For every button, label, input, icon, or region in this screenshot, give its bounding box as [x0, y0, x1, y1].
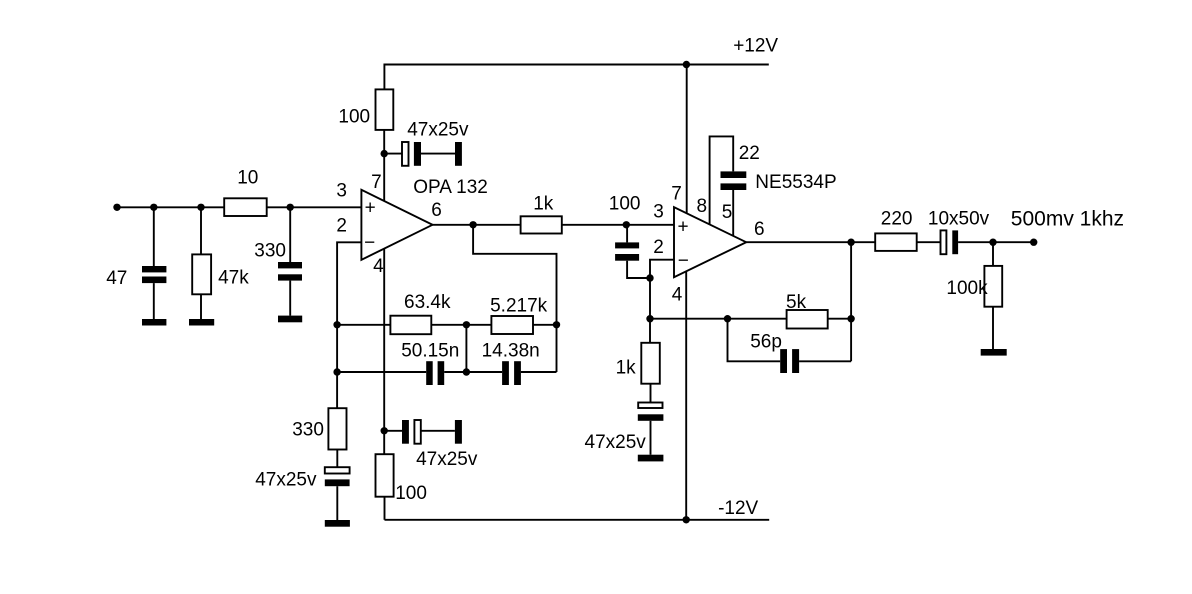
wire 56p loop right [799, 360, 851, 362]
wire +12V rail top [384, 65, 768, 90]
capacitor 100 [615, 242, 639, 260]
node 47 [150, 204, 157, 211]
wire op2 pin2 [650, 260, 674, 343]
wire input row [117, 206, 224, 208]
wire cap to ground bar [421, 153, 455, 155]
svg-text:47x25v: 47x25v [255, 470, 317, 491]
svg-text:7: 7 [671, 184, 682, 205]
svg-text:4: 4 [672, 285, 683, 306]
resistor 63.4k [390, 316, 431, 335]
svg-text:7: 7 [371, 172, 382, 193]
wire 1k to op2 pin3 [561, 224, 674, 226]
svg-text:3: 3 [336, 181, 347, 202]
ground 47 [142, 319, 166, 326]
wire 5k right [828, 318, 851, 320]
wire 1k to cap [650, 384, 652, 403]
svg-text:63.4k: 63.4k [404, 292, 451, 313]
wire node to cap 47x25v top [384, 153, 402, 155]
wire 5.217k right [533, 324, 557, 326]
capacitor 50.15n [426, 361, 444, 385]
svg-text:10x50v: 10x50v [928, 209, 990, 230]
node op2 pin2 [646, 274, 653, 281]
node dots [113, 61, 1037, 524]
resistor 1k op2 branch [641, 343, 660, 384]
svg-text:+: + [678, 216, 689, 237]
capacitor 47x25v top [402, 142, 409, 166]
resistor 100 top [376, 89, 394, 129]
svg-text:50.15n: 50.15n [401, 341, 459, 362]
svg-text:100k: 100k [946, 278, 988, 299]
capacitor 10x50v [941, 230, 947, 254]
node row1 mid [463, 321, 470, 328]
wire node to cap 47x25v bottom mid [384, 430, 402, 432]
svg-text:−: − [364, 233, 375, 254]
resistor 220 [875, 233, 917, 251]
svg-text:OPA 132: OPA 132 [413, 177, 488, 198]
capacitor 47x25v bottom left [325, 467, 350, 473]
node output [847, 239, 854, 246]
wire 330 to cap [336, 450, 338, 468]
svg-text:47: 47 [106, 268, 127, 289]
resistor 5.217k [491, 316, 533, 334]
svg-text:2: 2 [336, 215, 347, 236]
wire 330 cap to ground [289, 281, 291, 316]
wire input row after R 10 [267, 206, 362, 208]
node row1 right [553, 321, 560, 328]
wire cap to ground [336, 486, 338, 520]
svg-text:+: + [365, 198, 376, 219]
wire cap100 to node [627, 261, 650, 278]
wire 100k branch [992, 242, 994, 266]
node 330 [287, 204, 294, 211]
capacitor 47x25v bottom mid [402, 420, 409, 444]
node 56p left [724, 315, 731, 322]
label 500mv 1khz [1011, 208, 1124, 231]
wire op2 pin7 supply [686, 65, 688, 214]
svg-text:47x25v: 47x25v [407, 119, 469, 140]
wire 100k to ground [992, 307, 994, 349]
resistor 47k [192, 254, 211, 294]
ground 47x25v bottom mid [455, 420, 462, 444]
wire op1 pin2 [337, 242, 361, 408]
svg-text:47x25v: 47x25v [416, 449, 478, 470]
node 1k branch [646, 315, 653, 322]
svg-text:14.38n: 14.38n [482, 341, 540, 362]
wire op1 pin4 [383, 249, 385, 454]
svg-text:56p: 56p [750, 332, 782, 353]
node 47k [197, 204, 204, 211]
wire feedback row1 left [337, 324, 390, 326]
svg-text:5k: 5k [786, 292, 807, 313]
svg-text:100: 100 [609, 194, 641, 215]
svg-text:5: 5 [722, 202, 733, 223]
wire -12V rail bottom [385, 519, 770, 521]
wire op1 output [433, 224, 521, 226]
capacitor 14.38n [502, 361, 521, 385]
wire cap to ground [650, 421, 652, 455]
wire cap to ground bar [421, 430, 455, 432]
svg-text:2: 2 [653, 237, 664, 258]
wire between caps row2 [444, 371, 502, 373]
wire op2 output [746, 241, 875, 243]
node op1 output [469, 221, 476, 228]
svg-text:8: 8 [697, 196, 708, 217]
svg-text:100: 100 [395, 483, 427, 504]
svg-text:22: 22 [739, 143, 760, 164]
svg-text:+12V: +12V [733, 36, 778, 57]
wire R100 to op1 pin7 [383, 130, 385, 202]
node output terminal [1030, 239, 1037, 246]
wire 330 cap branch [289, 207, 291, 262]
op-amp pin polarity marks [364, 198, 689, 272]
node input terminal [113, 204, 120, 211]
wire op2 pin4 [685, 271, 687, 520]
wire 47k branch [200, 207, 202, 254]
ground 100k [981, 349, 1007, 356]
ground 330 [278, 316, 302, 323]
svg-text:330: 330 [292, 420, 324, 441]
wire feedback from output down [473, 225, 556, 372]
node -12V [683, 516, 690, 523]
svg-text:5.217k: 5.217k [490, 296, 548, 317]
wire mid vertical between rows [465, 325, 467, 372]
svg-text:6: 6 [754, 219, 765, 240]
op-amp U1 OPA132 triangle [361, 190, 432, 260]
capacitor 22 [721, 171, 747, 190]
svg-text:−: − [678, 251, 689, 272]
wire cap to output terminal [958, 241, 1034, 243]
svg-text:330: 330 [254, 241, 286, 262]
resistor 100 bottom [376, 454, 394, 497]
wire R100 to rail [384, 497, 386, 520]
node row1 left [333, 321, 340, 328]
resistor 100k [984, 266, 1002, 307]
wire 56p loop left [728, 319, 781, 362]
node op2 input [623, 221, 630, 228]
wire 220 to cap [917, 241, 941, 243]
svg-text:47x25v: 47x25v [585, 432, 647, 453]
wire 14.38n right [521, 371, 557, 373]
node +12V [683, 61, 690, 68]
wire output node down to 56p [850, 242, 852, 361]
capacitor 56p [780, 349, 799, 373]
capacitor 47x25v op2 branch [638, 403, 662, 409]
wire 47k to ground [200, 294, 202, 319]
svg-text:6: 6 [431, 200, 442, 221]
capacitor 100 lead top [626, 225, 628, 243]
ground 47x25v top [455, 142, 462, 166]
node 47x25v mid [381, 427, 388, 434]
svg-text:47k: 47k [218, 267, 249, 288]
svg-text:NE5534P: NE5534P [755, 172, 836, 193]
resistor 5k [787, 310, 828, 329]
node 100k [989, 239, 996, 246]
svg-text:500mv 1khz: 500mv 1khz [1011, 208, 1124, 231]
resistor 330 bottom [328, 408, 346, 449]
capacitor 47 [142, 266, 166, 283]
wire between 63.4k and 5.217k [431, 324, 491, 326]
wire 5k row [650, 318, 787, 320]
svg-text:220: 220 [881, 209, 913, 230]
svg-text:4: 4 [373, 256, 384, 277]
ground 47k [189, 319, 214, 326]
svg-text:10: 10 [237, 168, 258, 189]
svg-text:100: 100 [338, 107, 370, 128]
resistor R 10 [224, 198, 267, 216]
wire 47 cap to ground [153, 283, 155, 319]
capacitor 330 [278, 262, 302, 281]
ground 1k branch [638, 455, 664, 462]
svg-text:3: 3 [653, 202, 664, 223]
node row2 mid [463, 368, 470, 375]
svg-text:-12V: -12V [718, 498, 758, 519]
resistor 1k mid [521, 216, 562, 233]
node op1 pin7 cap [381, 150, 388, 157]
op-amp U2 NE5534P triangle [674, 207, 746, 277]
node 5k right [847, 315, 854, 322]
wire 47 cap branch [153, 207, 155, 266]
svg-text:1k: 1k [533, 194, 554, 215]
wire comp pin5 [732, 190, 734, 236]
wire feedback row2 left [337, 371, 426, 373]
svg-text:1k: 1k [616, 358, 637, 379]
ground 330 branch [325, 520, 350, 527]
node row2 left [333, 368, 340, 375]
wire comp pin8 loop [710, 136, 734, 224]
